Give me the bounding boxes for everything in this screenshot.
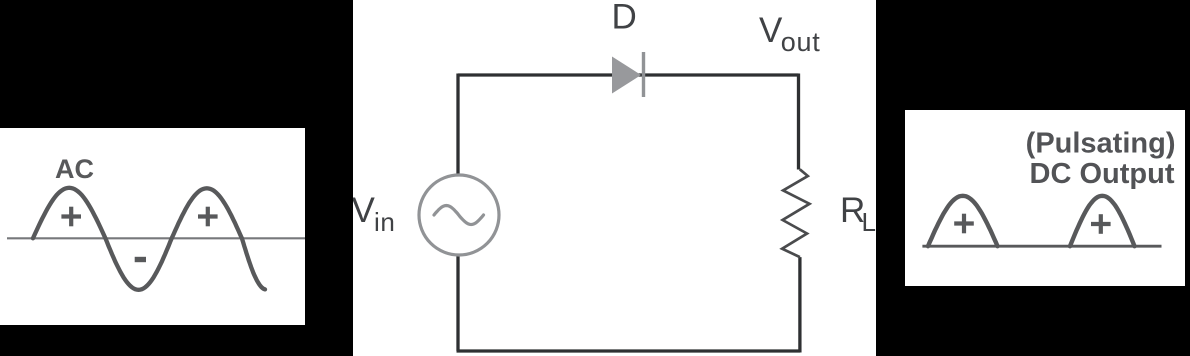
right panel: pulsating DC output	[905, 110, 1185, 286]
wire DC pulse 1	[928, 196, 998, 246]
middle panel: half-wave rectifier circuit	[353, 0, 876, 356]
node plus sign 2	[198, 207, 218, 227]
AC source sine symbol	[434, 206, 484, 225]
node minus sign	[135, 257, 146, 262]
node plus sign pulse 2	[1091, 214, 1111, 234]
svg-text:DC Output: DC Output	[1030, 158, 1175, 190]
left panel: AC input waveform	[0, 128, 305, 325]
wire left upper	[456, 74, 459, 177]
resistor RL zigzag	[782, 169, 809, 257]
wire right lower	[798, 257, 801, 352]
wire right upper	[797, 74, 800, 170]
diode D triangle (anode)	[612, 57, 641, 94]
svg-text:(Pulsating): (Pulsating)	[1026, 128, 1176, 160]
diode D cathode bar	[642, 52, 645, 97]
svg-text:D: D	[612, 0, 637, 37]
AC source Vin circle	[419, 175, 499, 255]
node plus sign 1	[61, 207, 81, 227]
wire left lower	[456, 255, 459, 351]
svg-text:V: V	[353, 191, 376, 230]
wire top	[458, 73, 799, 76]
node output baseline	[922, 245, 1161, 248]
node axis (AC zero line)	[7, 237, 305, 239]
wire bottom	[457, 349, 801, 352]
svg-text:AC: AC	[55, 154, 94, 184]
svg-text:in: in	[374, 207, 395, 237]
svg-text:out: out	[781, 27, 821, 57]
svg-text:V: V	[759, 11, 783, 50]
wire DC pulse 2	[1070, 196, 1135, 246]
wire AC sine waveform	[33, 188, 265, 290]
node plus sign pulse 1	[954, 214, 974, 234]
svg-text:L: L	[862, 207, 876, 237]
